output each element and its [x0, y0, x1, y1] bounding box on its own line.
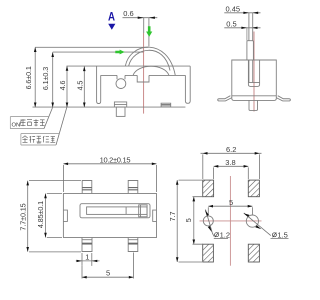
cover top edge with left extension: [67, 65, 191, 67]
face hole (circle): [116, 79, 126, 89]
svg-text:7.7: 7.7: [168, 212, 177, 222]
leader line (full travel position): [56, 107, 67, 145]
svg-text:3.8: 3.8: [225, 158, 235, 167]
dim 0.45 line: [224, 12, 260, 14]
dim 10.2±0.15 line: [63, 163, 156, 165]
right edge recess: [153, 210, 157, 221]
dim 0.5 line: [224, 27, 260, 29]
hole circle ∅1.2: [203, 216, 213, 226]
red horizontal centerline (footprint): [200, 220, 262, 222]
cover face top edge: [101, 74, 186, 76]
terminal stub top-right: [128, 181, 138, 194]
svg-text:4.6: 4.6: [58, 81, 67, 91]
section marker arrow (blue triangle): [108, 24, 115, 30]
svg-text:5: 5: [184, 218, 193, 222]
slider slot: [87, 207, 147, 215]
internal cavity cup: [248, 60, 259, 86]
pad top-left: [203, 180, 214, 197]
dim 6.1±0.3: [52, 52, 54, 107]
svg-text:4.85±0.1: 4.85±0.1: [36, 201, 45, 228]
extension line dim 5 right: [82, 253, 134, 279]
dome arc base (knob skirt): [133, 66, 169, 75]
green push arrow (down): [146, 26, 152, 37]
body outline (plan): [63, 194, 156, 238]
svg-text:1: 1: [85, 252, 89, 261]
dim 3.8: [214, 165, 249, 167]
slider knob: [139, 205, 147, 217]
svg-text:0.5: 0.5: [226, 19, 236, 28]
svg-text:1.2: 1.2: [220, 230, 230, 239]
dim 0.6 left arrow: [138, 17, 144, 19]
dim 4.85±0.1: [45, 194, 47, 238]
pad bottom-left: [203, 244, 214, 262]
actuator blade edges: [249, 13, 253, 41]
terminal stub bottom-right: [128, 238, 138, 252]
extension line top (6.6 level): [35, 46, 148, 48]
extension line 0.6 left (black upper part): [143, 18, 145, 33]
dim 5 (stub pitch): [82, 276, 134, 278]
svg-text:0.6: 0.6: [123, 9, 133, 18]
extension line ON-position (6.1 level): [53, 51, 144, 53]
svg-text:5: 5: [229, 198, 233, 207]
dim 6.2: [201, 152, 262, 154]
dome arc inner (full travel position): [129, 50, 170, 70]
terminal stub top-left: [82, 181, 92, 194]
dim 7.7±0.15: [27, 181, 29, 252]
svg-text:1.5: 1.5: [277, 230, 287, 239]
extension lines 7.7 footprint: [179, 180, 203, 262]
svg-text:10.2±0.15: 10.2±0.15: [100, 156, 131, 165]
slider window frame: [80, 204, 150, 218]
hole circle ∅1.5: [246, 215, 258, 227]
svg-text:6.2: 6.2: [226, 145, 236, 154]
label ∅1.5: [272, 230, 287, 239]
dim 0.5 arrows: [241, 27, 247, 29]
knob inner edge: [140, 205, 142, 217]
green travel arrow (right): [115, 50, 124, 55]
extension lines hole pitch: [208, 207, 252, 215]
label box ON start position: [10, 117, 49, 129]
svg-text:4.5: 4.5: [76, 81, 85, 91]
left edge recess: [63, 210, 67, 221]
dim 5 horizontal (hole pitch): [208, 205, 252, 207]
terminal stub bottom-left: [82, 238, 92, 252]
leader ∅1.2: [206, 210, 215, 237]
dim 7.7 (footprint): [176, 180, 178, 262]
cover right wall: [185, 66, 190, 103]
svg-text:5: 5: [106, 269, 110, 278]
dim 4.6: [66, 66, 68, 107]
dome arc outer (ON start position): [125, 47, 175, 75]
extension lines 4.85: [47, 194, 62, 238]
body outline (side): [232, 60, 276, 100]
dim 1 (stub width): [76, 260, 100, 262]
dim 5 vertical (footprint): [193, 197, 195, 245]
face notch 2: [137, 75, 149, 82]
body bottom line / dimension baseline: [33, 106, 186, 108]
pad top-right: [248, 180, 259, 197]
leader ∅1.5: [244, 213, 271, 236]
red vertical centerline (footprint): [229, 176, 231, 266]
label box full travel position: [21, 134, 59, 145]
cover left wall: [97, 66, 101, 103]
bottom locating boss: [249, 100, 258, 110]
left gull-wing terminal: [218, 96, 232, 101]
blade inside body: [249, 60, 253, 83]
pad bottom-right: [248, 244, 259, 262]
label ∅1.2: [215, 230, 230, 239]
svg-text:A: A: [108, 12, 115, 24]
dim 0.45 arrows: [243, 12, 249, 14]
slot divider: [125, 207, 127, 215]
leader line (ON start position): [44, 107, 53, 128]
face notch 1: [117, 75, 125, 79]
dim 6.6±0.1: [34, 47, 36, 107]
svg-text:ON: ON: [12, 122, 21, 128]
extension lines 3.8: [214, 167, 249, 179]
cavity floor line: [248, 82, 259, 84]
terminal tab 2: [161, 103, 171, 107]
dim 4.5: [83, 66, 85, 107]
dim 0.6 right arrow: [149, 17, 155, 19]
svg-text:6.6±0.1: 6.6±0.1: [24, 66, 33, 89]
right gull-wing terminal: [276, 96, 290, 101]
red centerline (side view): [253, 32, 255, 112]
red centerline (front view): [143, 33, 145, 114]
svg-text:7.7±0.15: 7.7±0.15: [18, 203, 27, 230]
extension line stem left: [246, 28, 248, 41]
extension lines 5 vertical: [193, 197, 204, 245]
extension/actuator line 0.6 right: [148, 18, 150, 46]
extension lines dim 1: [82, 253, 92, 266]
svg-text:6.1±0.3: 6.1±0.3: [41, 67, 50, 90]
extension lines 10.2: [63, 165, 156, 192]
extension lines 6.2: [203, 154, 260, 179]
label text 全行程位置: [22, 136, 55, 143]
actuator stem: [247, 41, 254, 60]
dim 0.6 line: [123, 17, 158, 19]
extension lines 7.7: [29, 181, 81, 252]
svg-text:0.45: 0.45: [226, 4, 241, 13]
terminal tab 1 (with solder pin): [114, 102, 126, 107]
base seam line: [232, 95, 276, 97]
